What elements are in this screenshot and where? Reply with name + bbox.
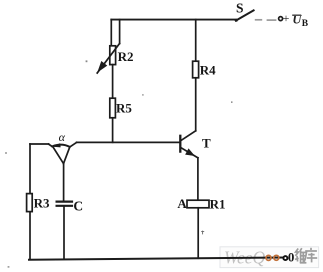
svg-text:R3: R3 (34, 196, 50, 211)
svg-text:R1: R1 (210, 197, 226, 212)
svg-text:α: α (59, 130, 66, 144)
svg-text:+: + (283, 11, 290, 25)
svg-text:S: S (236, 1, 244, 16)
svg-text:0: 0 (288, 250, 295, 265)
svg-text:A: A (177, 196, 187, 211)
svg-text:R4: R4 (200, 63, 216, 78)
svg-text:R5: R5 (116, 101, 132, 116)
svg-text:B: B (302, 19, 309, 29)
svg-text:C: C (73, 199, 83, 214)
svg-text:R2: R2 (118, 49, 134, 64)
svg-text:T: T (202, 136, 211, 151)
